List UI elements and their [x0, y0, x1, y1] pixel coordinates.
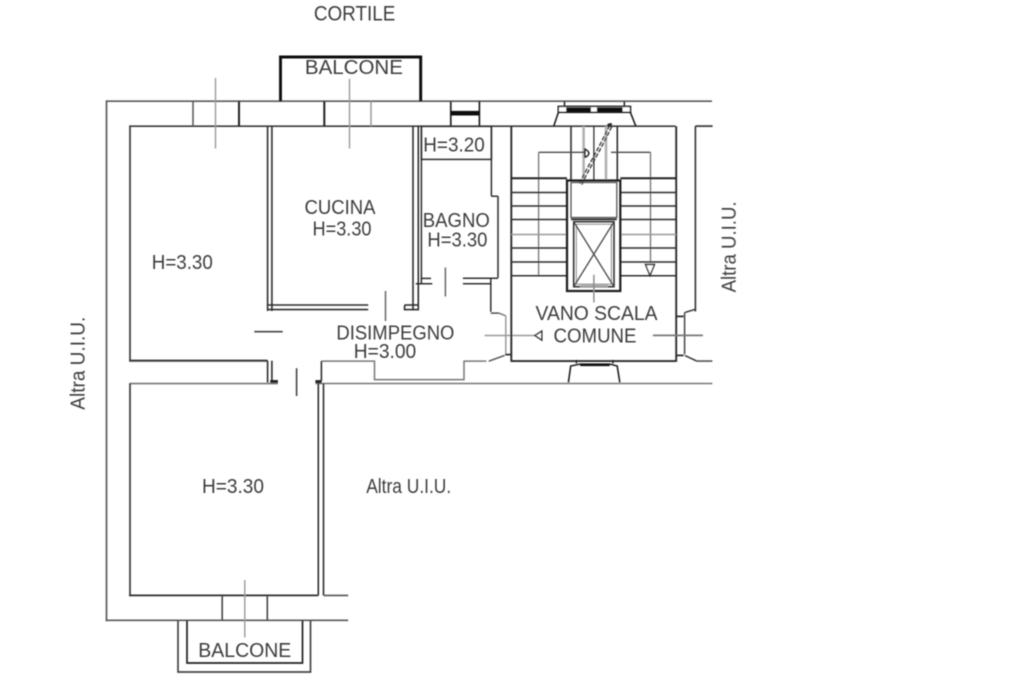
- door mark left room to disimpegno: [254, 331, 282, 333]
- H=3.20 closet box: [421, 126, 491, 159]
- svg-text:H=3.30: H=3.30: [313, 219, 372, 241]
- svg-text:H=3.20: H=3.20: [423, 135, 485, 157]
- svg-text:BALCONE: BALCONE: [305, 57, 403, 79]
- elevator axis line: [593, 275, 595, 303]
- elevator sill: [580, 285, 608, 287]
- balcone top box: [281, 57, 421, 101]
- elevator X cross: [574, 222, 614, 287]
- wall cap to stairwell: [491, 313, 506, 316]
- door mark disimpegno to lower room: [296, 368, 298, 396]
- svg-text:Altra U.I.U.: Altra U.I.U.: [366, 476, 451, 498]
- right section wall jog: [685, 309, 695, 312]
- svg-text:H=3.00: H=3.00: [354, 341, 417, 363]
- svg-text:BALCONE: BALCONE: [198, 640, 291, 662]
- lower room left wall: [129, 384, 131, 597]
- window W3 (black sill) jambs: [451, 101, 480, 126]
- window W3 black sill bar: [451, 111, 480, 116]
- wall left room / cucina (double): [268, 126, 272, 311]
- stairwell top window splay: [554, 112, 636, 126]
- door jamb tick lower room: [315, 380, 321, 383]
- jamb below left room wall: [268, 361, 278, 383]
- long wall line under middle band: [129, 383, 712, 385]
- wall cucina / bagno (double): [413, 126, 418, 310]
- inner face of top wall: [130, 125, 713, 127]
- right section outer wall: [694, 126, 696, 311]
- window W2 axis line: [349, 79, 351, 149]
- left steps: [511, 178, 567, 275]
- stairwell bottom window: [568, 360, 619, 383]
- svg-text:Altra U.I.U.: Altra U.I.U.: [719, 201, 741, 292]
- svg-text:COMUNE: COMUNE: [554, 326, 637, 348]
- right steps: [620, 178, 676, 275]
- door leaf right: [685, 356, 697, 361]
- outer wall top line: [107, 100, 713, 102]
- bagno right wall lower: [497, 196, 499, 278]
- down arrow: [646, 265, 655, 276]
- window W2 (cucina) jambs: [324, 101, 371, 126]
- stair arrow head tick: [608, 124, 612, 125]
- elevator cabin: [574, 222, 614, 287]
- svg-text:H=3.30: H=3.30: [202, 476, 264, 498]
- bagno right wall upper: [490, 126, 492, 196]
- outer wall bottom-left line: [106, 619, 349, 621]
- window W1 axis line: [215, 78, 217, 149]
- door line + arrow (left stairwell door): [485, 331, 542, 340]
- left room left wall: [129, 125, 131, 361]
- stair railing outline: [539, 152, 651, 276]
- left room bottom wall: [129, 360, 267, 362]
- door mark bagno: [444, 268, 446, 297]
- elevator shaft: [567, 181, 620, 292]
- lower window jambs: [222, 595, 267, 620]
- elevator cabin top line: [571, 218, 617, 220]
- balcone bottom outer: [178, 621, 311, 673]
- svg-text:CUCINA: CUCINA: [305, 197, 377, 219]
- bagno wall below bottom: [490, 278, 492, 312]
- cucina bottom wall right piece (double): [405, 305, 419, 310]
- bagno left wall: [420, 126, 422, 283]
- right wall inner lower: [676, 312, 684, 355]
- balcone bottom inner: [187, 621, 303, 664]
- lower window axis: [244, 580, 246, 638]
- lower room bottom wall: [129, 594, 348, 596]
- svg-text:H=3.30: H=3.30: [427, 229, 487, 251]
- stairwell bottom wall: [511, 360, 676, 362]
- disimpegno bottom recess wall: [321, 361, 486, 380]
- outer wall left line: [106, 100, 108, 621]
- bagno bottom wall (double, door gap): [416, 278, 498, 284]
- stair arrow flag: [585, 148, 589, 158]
- stair direction double diagonal: [580, 125, 613, 185]
- window W1 (left room) jambs: [193, 101, 239, 126]
- svg-text:VANO SCALA: VANO SCALA: [536, 303, 659, 325]
- door line right stairwell door: [653, 334, 703, 336]
- stair flight verticals: [571, 126, 617, 180]
- stairwell right wall: [675, 126, 677, 362]
- door leaf to stairwell (left): [489, 316, 512, 361]
- stairwell top window frame: [558, 106, 630, 112]
- right stub walls: [696, 360, 712, 362]
- door mark cucina to disimpegno: [385, 291, 387, 321]
- bagno right wall jog: [491, 195, 498, 197]
- cucina bottom wall (double): [268, 305, 369, 310]
- svg-text:H=3.30: H=3.30: [152, 252, 213, 274]
- stairwell left wall: [510, 126, 512, 362]
- disimpegno wall vertical at lower room corner: [320, 361, 322, 381]
- lower room right wall (double): [318, 384, 323, 596]
- svg-text:Altra U.I.U.: Altra U.I.U.: [68, 317, 90, 410]
- svg-text:CORTILE: CORTILE: [314, 2, 396, 25]
- elevator upper inner box: [571, 183, 617, 218]
- stairwell top window ticks: [565, 101, 625, 106]
